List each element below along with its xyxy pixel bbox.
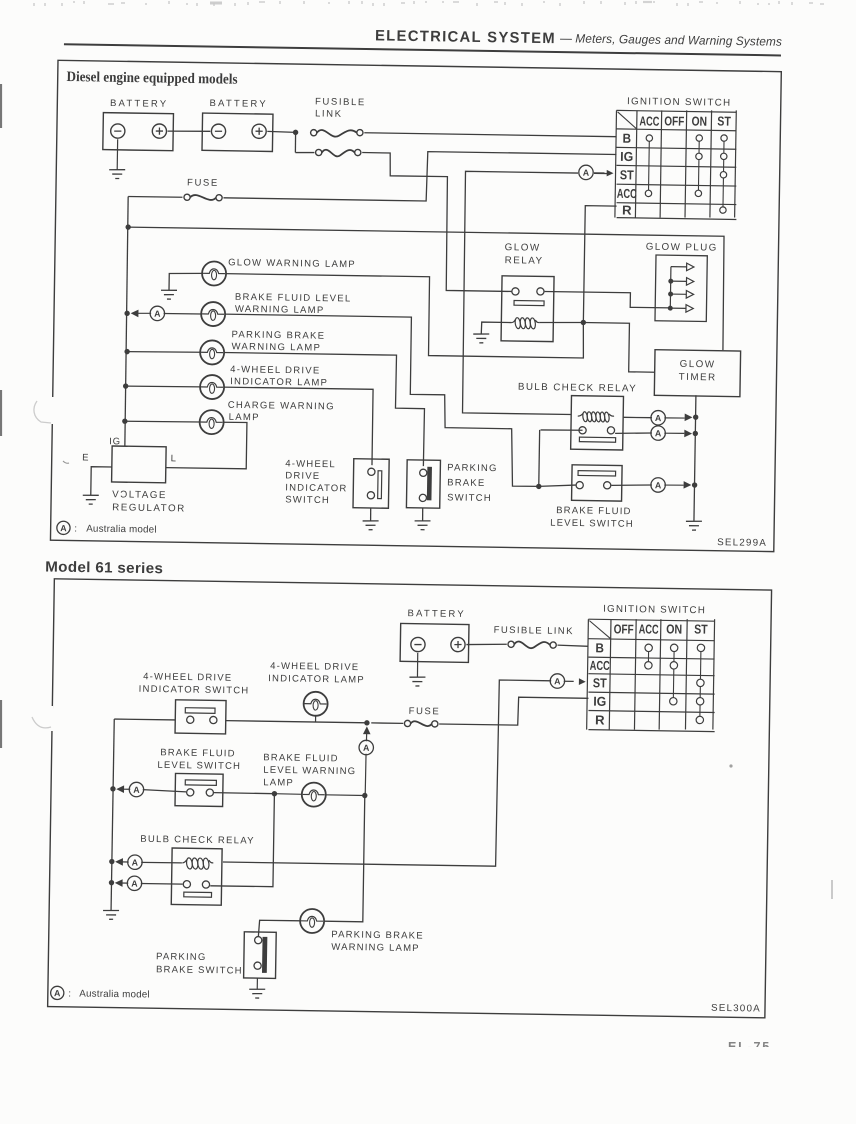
junction of fusible links [293,130,298,135]
svg-text:SEL300A: SEL300A [711,1003,761,1015]
svg-text:BATTERY: BATTERY [407,608,466,620]
4-wheel drive indicator switch S1 [353,459,389,509]
wire junction down to fusible link FL2 [294,132,296,152]
wire brake fluid switch to ground bus (A junction) [611,484,652,486]
brake fluid level switch S5 (Model 61) [175,773,223,806]
A-arrow up to lamp feed junction (Australia model) [363,726,371,734]
svg-text:— Meters, Gauges and Warning S: — Meters, Gauges and Warning Systems [560,31,782,48]
A-arrow bulb check relay contact to bus (Model 61) [115,879,123,887]
scan bleed-through marks at top edge [34,1,824,6]
svg-text:A: A [363,743,370,753]
svg-text:BULB CHECK RELAY: BULB CHECK RELAY [518,382,637,395]
svg-text:4-WHEEL DRIVE: 4-WHEEL DRIVE [230,364,321,376]
svg-text:Model 61 series: Model 61 series [45,559,163,577]
svg-text:B: B [595,640,604,655]
wire fuse F1 to ignition switch IG terminal [223,148,616,204]
svg-text:R: R [622,202,632,217]
svg-text:IGNITION SWITCH: IGNITION SWITCH [627,96,732,109]
left page-edge scan artifacts [1,84,832,899]
brake fluid level warning lamp [164,312,202,315]
ignition switch contact table (Model 61) [587,617,717,731]
svg-text:A: A [655,480,662,490]
A-arrow into ignition switch ST terminal (Model 61) [550,674,565,689]
wire fuse F2 to indicator lamp feed junction [371,722,403,725]
bulb check relay K3 (Model 61) [171,848,222,905]
wire ignition switch R terminal to glow relay coil [583,206,616,323]
svg-text:DRIVE: DRIVE [285,470,320,482]
svg-text:ON: ON [666,621,682,636]
svg-text:FUSE: FUSE [187,177,219,188]
svg-text:ELECTRICAL SYSTEM: ELECTRICAL SYSTEM [375,27,556,47]
svg-text:OFF: OFF [664,113,684,128]
svg-text:ON: ON [691,113,707,128]
svg-text:ACC: ACC [617,186,638,201]
svg-text::: : [74,524,77,535]
battery B3 [400,623,469,662]
svg-text:SEL299A: SEL299A [717,537,767,549]
junction lamp bus at bulb check relay coil (Model 61) [109,859,114,864]
wire 4WD switch to lamp bus (Model 61) [114,719,175,720]
A-arrow bulb check relay coil to bus (Model 61) [115,858,123,866]
svg-text:A: A [554,676,561,686]
svg-text:L: L [171,453,177,464]
wire voltage regulator E terminal to ground [91,467,112,496]
svg-text:PARKING: PARKING [447,462,498,474]
svg-text:SWITCH: SWITCH [285,494,330,506]
diagonal in corner cell of ignition table [617,112,636,129]
ignition switch contact table [615,108,738,219]
svg-text:ST: ST [694,621,708,636]
wire glow relay coil junction with R terminal feed [539,322,583,323]
4-wheel drive indicator lamp [126,386,201,388]
wire battery B1 to battery B2 [168,131,211,132]
svg-text:IGNITION SWITCH: IGNITION SWITCH [603,604,706,617]
brake fluid level switch S3 (top) [572,465,623,501]
fuse F1 [184,194,190,200]
svg-text:BRAKE FLUID LEVEL: BRAKE FLUID LEVEL [235,292,352,305]
wire battery B3 to fusible link FL3 [466,644,506,646]
wire fusible link FL1 to ignition switch B terminal [364,133,616,137]
fusible link FL1 [311,130,317,136]
svg-text:LINK: LINK [315,108,343,119]
page curl scan artifact over Model 61 box left border [40,706,53,731]
wire battery B2 to fusible links [267,130,295,133]
wire 4WD indicator lamp to 4WD indicator switch [222,387,373,465]
junction brake fluid switch feed [536,484,541,489]
svg-text:A: A [583,168,590,178]
parking brake warning lamp [127,351,201,353]
svg-text:FUSE: FUSE [409,706,441,717]
ignition table circles and links (Model 61) [647,648,649,665]
svg-text:GLOW PLUG: GLOW PLUG [646,242,718,254]
wire lamp junction down to parking brake warning lamp [324,795,364,922]
glow plug 1 [671,266,687,268]
lamp bus vertical (Model 61) [111,719,114,910]
svg-text:Australia model: Australia model [79,988,150,1000]
wire parking brake warning lamp to parking brake switch [222,352,426,466]
4-wheel drive indicator switch S4 (Model 61) [175,700,226,734]
ground for voltage regulator [83,494,99,496]
junction at brake fluid warning lamp left (Model 61) [272,791,277,796]
svg-text:A: A [655,428,662,438]
wire bulb check relay contact to dot junction [541,429,583,432]
svg-text:PARKING: PARKING [156,951,207,963]
voltage regulator U1 [112,446,167,483]
svg-text:PARKING BRAKE: PARKING BRAKE [331,929,424,941]
svg-text:LEVEL SWITCH: LEVEL SWITCH [550,518,634,530]
ground for parking brake switch (Model 61) [256,978,258,989]
svg-text:Australia model: Australia model [86,524,157,536]
header rule [64,44,781,55]
wire fusible link FL2 to glow relay contact feed [360,152,514,291]
svg-text:WARNING LAMP: WARNING LAMP [231,341,321,353]
junction indicator lamp feed [364,720,369,725]
svg-text:LAMP: LAMP [263,777,294,788]
svg-text:R: R [595,712,605,727]
diagonal in corner cell (Model 61 table) [589,621,610,639]
fusible link FL2 [295,151,314,154]
fuse F2 [404,720,410,726]
glow plug 3 [671,293,687,295]
svg-text:INDICATOR: INDICATOR [285,482,347,494]
svg-text:ST: ST [717,113,731,128]
svg-text:PARKING BRAKE: PARKING BRAKE [231,329,325,341]
svg-text:BRAKE FLUID: BRAKE FLUID [556,505,632,517]
glow warning lamp [202,261,226,285]
svg-text:LAMP: LAMP [229,412,260,423]
wire glow warning lamp to glow relay coil junction [224,274,584,358]
svg-text:WARNING LAMP: WARNING LAMP [331,942,420,954]
svg-text:ACC: ACC [639,113,660,128]
ground for glow relay coil [473,333,489,336]
svg-text:E: E [82,452,89,463]
junction lamp bus at 4WD indicator lamp [123,383,128,388]
frame of Diesel engine equipped models diagram [50,60,781,551]
svg-text:VƆLTAGE: VƆLTAGE [112,489,167,501]
svg-text:4-WHEEL DRIVE: 4-WHEEL DRIVE [270,661,359,673]
parking brake switch S6 (Model 61) [244,932,277,979]
svg-text:B: B [622,131,631,146]
brake fluid level warning lamp (Model 61) [274,793,302,796]
ground for battery B3 [416,653,418,677]
svg-text:FUSIBLE LINK: FUSIBLE LINK [494,625,574,637]
junction lamp bus at parking brake warning lamp [124,349,129,354]
frame of Model 61 series diagram [48,579,772,1018]
wire ignition IG terminal to fuse (Model 61) [439,696,588,726]
svg-text:A: A [133,785,140,795]
svg-text:CHARGE WARNING: CHARGE WARNING [228,400,335,413]
svg-text:BRAKE FLUID: BRAKE FLUID [263,752,339,764]
wire lamp feed junction to 4WD switch [226,721,367,723]
svg-text:GLOW WARNING LAMP: GLOW WARNING LAMP [228,257,356,270]
A-arrow into ignition switch ST terminal [579,165,594,180]
svg-text:BATTERY: BATTERY [110,98,169,110]
ignition table contact circles and links [647,138,650,193]
4-wheel drive indicator lamp (Model 61) [315,715,317,722]
svg-text:IG: IG [620,149,633,164]
wire brake fluid switch to warning lamp junction [214,793,274,794]
wire glow relay contact to glow plugs [544,291,670,308]
wire glow relay coil to ground [481,322,511,334]
ground for lamp bus (Model 61) [103,909,119,912]
glow plug 2 [671,280,687,282]
A-arrow from brake fluid warning lamp to bus [131,309,139,317]
svg-text:LEVEL WARNING: LEVEL WARNING [263,765,356,777]
svg-text:ST: ST [620,167,634,182]
svg-text:4-WHEEL DRIVE: 4-WHEEL DRIVE [143,671,232,683]
svg-text:SWITCH: SWITCH [447,492,492,504]
glow relay K1 [501,276,554,342]
svg-text:BRAKE SWITCH: BRAKE SWITCH [156,964,243,976]
svg-text:FUSIBLE: FUSIBLE [315,96,366,108]
ground for 4WD indicator switch [370,508,372,521]
svg-text:LEVEL SWITCH: LEVEL SWITCH [157,760,241,772]
svg-text:BRAKE: BRAKE [447,477,485,489]
svg-text:ST: ST [593,675,607,690]
wire fusible link FL3 to ignition switch B terminal [557,645,588,646]
junction lamp bus at brake fluid switch (Model 61) [110,786,115,791]
svg-text:A: A [54,988,61,998]
junction at brake fluid warning lamp right (Model 61) [362,793,367,798]
Australia model note (Model 61) [51,986,64,999]
svg-text:Diesel engine equipped models: Diesel engine equipped models [66,69,238,88]
wire lamp bus top corner to fuse F1 [128,195,182,198]
svg-text:A: A [60,523,67,533]
svg-text:4-WHEEL: 4-WHEEL [285,458,336,470]
bulb check relay K2 (top) [571,396,624,450]
svg-text:ACC: ACC [590,658,611,673]
junction lamp bus to glow timer feed [125,224,130,229]
svg-text:REGULATOR: REGULATOR [112,502,186,514]
parking brake switch S2 [406,460,440,508]
A-arrow brake fluid switch to bus (Model 61) [116,785,124,793]
svg-text:ACC: ACC [639,621,660,636]
svg-text:BULB CHECK RELAY: BULB CHECK RELAY [140,834,255,847]
wire parking brake warning lamp to switch [258,920,300,937]
wire lamp bus to glow timer [126,227,724,350]
lamp bus vertical wire [124,197,129,446]
svg-text:A: A [132,857,139,867]
junction lamp bus at brake fluid warning lamp [124,311,129,316]
wire glow timer to ground bus [694,395,696,521]
svg-text:A: A [154,309,161,319]
parking brake warning lamp (Model 61) [300,909,324,933]
ground for glow warning lamp [169,273,203,291]
ground for glow timer circuit [686,520,702,523]
fusible link FL3 [508,641,514,647]
svg-text:BATTERY: BATTERY [209,98,268,110]
glow plug assembly box [655,255,707,321]
glow plug junction dots [668,279,673,284]
page curl scan artifact over top box left border [46,397,59,424]
glow timer box [654,350,740,397]
ground for parking brake switch [422,508,424,521]
junction lamp bus at charge warning lamp [122,418,127,423]
svg-text:OFF: OFF [614,621,634,636]
svg-text:RELAY: RELAY [505,255,544,267]
wire charge warning lamp to voltage regulator L terminal [166,421,247,469]
svg-text:BRAKE FLUID: BRAKE FLUID [160,747,236,759]
wire bulb check relay coil to ground bus (A junction) [624,416,652,419]
charge warning lamp [125,421,201,423]
junction lamp bus at bulb check relay contact (Model 61) [109,880,114,885]
wire ignition ST terminal to bulb check relay coil (Model 61) [223,676,551,867]
svg-text:A: A [655,413,662,423]
Australia model note (top box) [57,521,70,534]
svg-text::: : [68,988,71,999]
vertical wire brake fluid junction to bulb check relay contact [210,793,274,887]
battery B2 [202,113,273,151]
wire ignition ST terminal feed to bulb check relay coil [594,172,611,174]
ground for battery B1 [116,139,118,169]
wire brake fluid warning lamp to brake fluid switch junction [222,314,542,486]
svg-text:GLOW: GLOW [680,359,716,371]
svg-text:TIMER: TIMER [679,372,717,384]
battery B1 [103,113,174,151]
wire glow relay coil to glow timer [583,322,656,372]
svg-text:A: A [131,879,138,889]
glow plug 4 [670,307,686,309]
glow plug bus wire [669,267,672,308]
wire bulb check relay contact to ground bus (A junction) [615,432,652,434]
svg-text:INDICATOR SWITCH: INDICATOR SWITCH [139,684,250,697]
svg-text:INDICATOR LAMP: INDICATOR LAMP [268,673,365,686]
svg-text:IG: IG [593,694,606,709]
svg-text:GLOW: GLOW [505,242,541,254]
